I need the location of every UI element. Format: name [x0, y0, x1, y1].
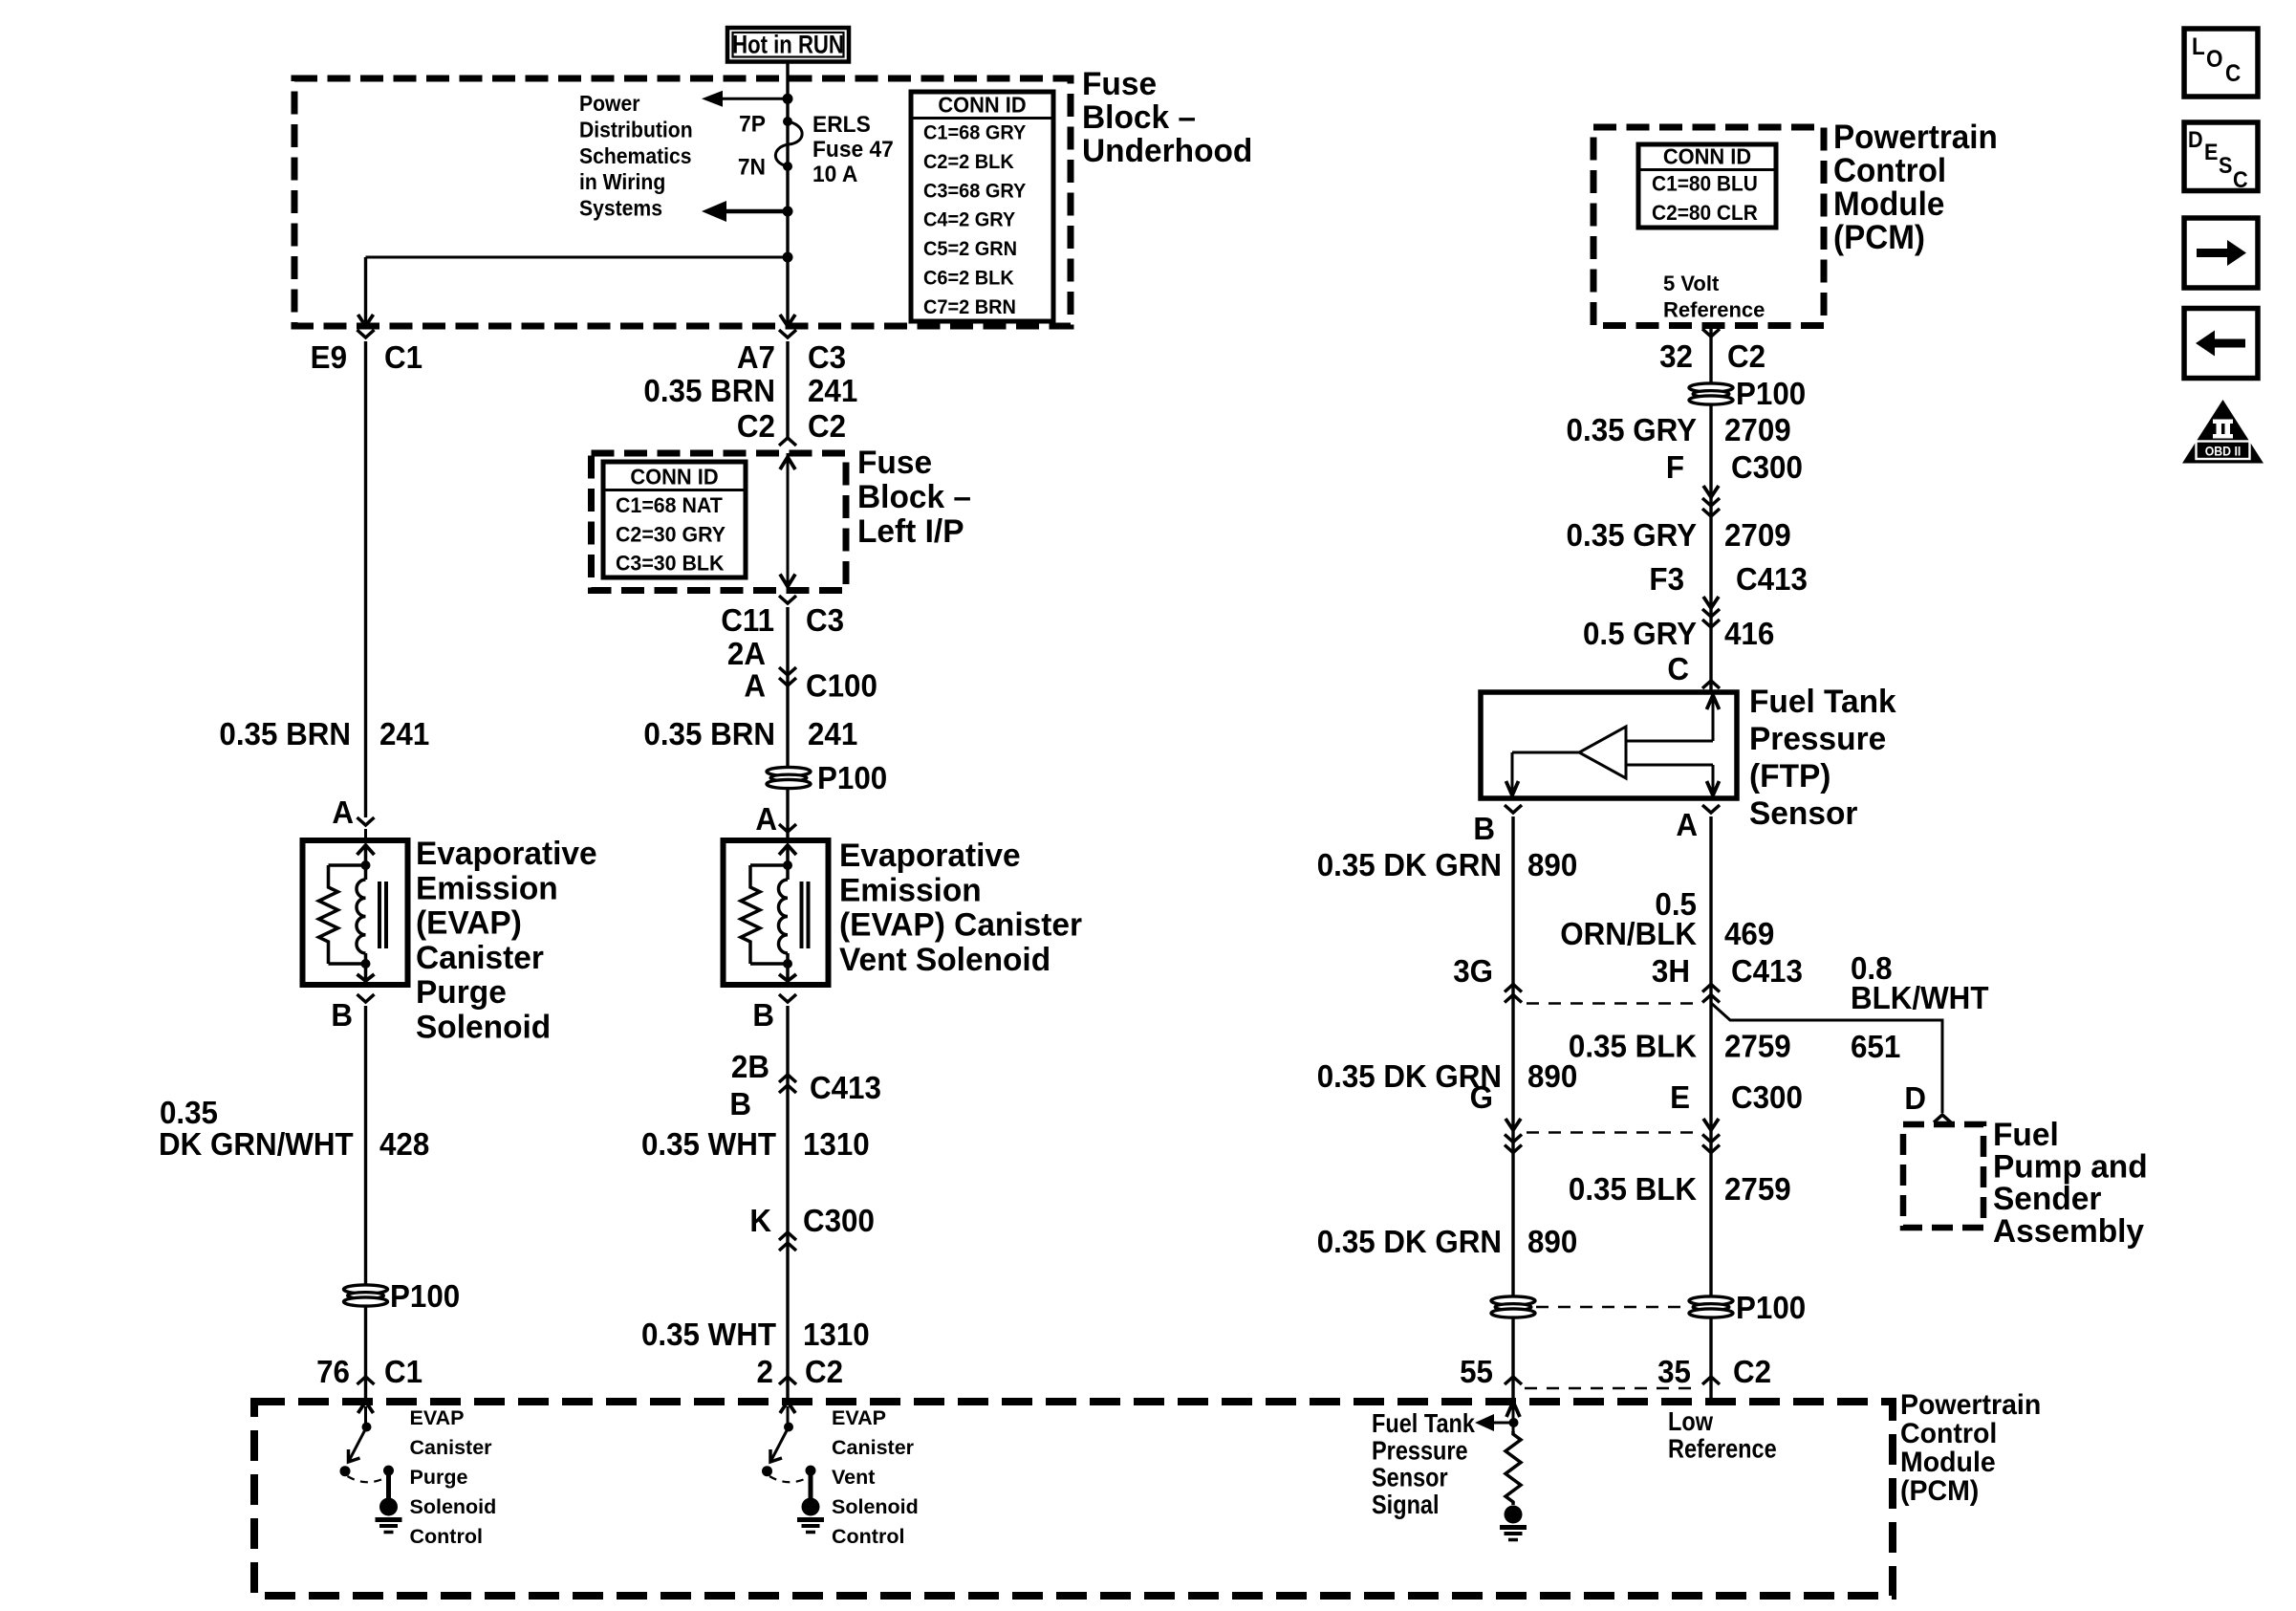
svg-text:Purge: Purge — [416, 974, 507, 1012]
svg-text:241: 241 — [808, 373, 857, 408]
svg-text:A7: A7 — [737, 339, 775, 375]
svg-text:E9: E9 — [311, 339, 347, 375]
svg-text:G: G — [1470, 1079, 1493, 1115]
svg-text:2B: 2B — [731, 1049, 769, 1084]
svg-text:(FTP): (FTP) — [1749, 758, 1830, 795]
svg-text:A: A — [744, 668, 766, 704]
svg-text:Solenoid: Solenoid — [410, 1495, 497, 1518]
svg-text:P100: P100 — [817, 760, 887, 795]
svg-text:Power: Power — [579, 91, 640, 116]
svg-text:CONN ID: CONN ID — [1663, 144, 1751, 169]
svg-text:Canister: Canister — [410, 1436, 493, 1459]
svg-text:0.35 GRY: 0.35 GRY — [1567, 412, 1697, 447]
svg-text:A: A — [332, 795, 354, 830]
svg-text:D: D — [1904, 1080, 1926, 1116]
svg-text:2A: 2A — [727, 636, 766, 671]
svg-text:428: 428 — [379, 1126, 429, 1162]
svg-text:2709: 2709 — [1724, 412, 1791, 447]
svg-text:C6=2 BLK: C6=2 BLK — [923, 267, 1014, 290]
svg-text:1310: 1310 — [803, 1317, 870, 1352]
svg-text:Solenoid: Solenoid — [832, 1495, 919, 1518]
svg-text:C3=68 GRY: C3=68 GRY — [923, 180, 1027, 203]
svg-text:B: B — [331, 997, 353, 1033]
svg-text:Evaporative: Evaporative — [416, 836, 597, 873]
svg-text:Control: Control — [832, 1525, 904, 1548]
svg-text:0.35 BRN: 0.35 BRN — [643, 716, 775, 751]
svg-text:469: 469 — [1724, 916, 1774, 951]
svg-text:Control: Control — [1833, 152, 1946, 189]
svg-text:0.35 BRN: 0.35 BRN — [219, 716, 351, 751]
svg-text:E: E — [2204, 139, 2218, 164]
svg-text:2759: 2759 — [1724, 1171, 1791, 1207]
svg-text:BLK/WHT: BLK/WHT — [1851, 980, 1989, 1015]
svg-text:C2: C2 — [1733, 1354, 1771, 1389]
svg-text:C2=30 GRY: C2=30 GRY — [616, 522, 726, 547]
svg-text:Fuel Tank: Fuel Tank — [1749, 684, 1896, 721]
svg-text:S: S — [2219, 152, 2232, 178]
svg-text:C4=2 GRY: C4=2 GRY — [923, 208, 1016, 231]
svg-text:C413: C413 — [810, 1070, 881, 1105]
svg-text:C: C — [1667, 651, 1689, 686]
svg-text:Hot in RUN: Hot in RUN — [732, 32, 844, 60]
svg-text:P100: P100 — [1736, 376, 1806, 411]
svg-text:0.5 GRY: 0.5 GRY — [1583, 616, 1697, 651]
svg-text:Block –: Block – — [857, 479, 971, 516]
svg-text:Powertrain: Powertrain — [1833, 119, 1998, 156]
svg-text:0.35 GRY: 0.35 GRY — [1567, 517, 1697, 553]
svg-text:EVAP: EVAP — [832, 1406, 886, 1429]
svg-text:0.35 DK GRN: 0.35 DK GRN — [1317, 847, 1502, 882]
svg-text:0.35 BLK: 0.35 BLK — [1569, 1171, 1697, 1207]
svg-text:Assembly: Assembly — [1993, 1212, 2144, 1250]
svg-text:C300: C300 — [1731, 1079, 1803, 1115]
svg-text:241: 241 — [379, 716, 429, 751]
svg-text:3H: 3H — [1652, 953, 1690, 989]
svg-text:Fuel Tank: Fuel Tank — [1372, 1409, 1476, 1438]
svg-text:ERLS: ERLS — [812, 111, 871, 137]
svg-text:C2=80 CLR: C2=80 CLR — [1652, 202, 1758, 226]
svg-text:(EVAP) Canister: (EVAP) Canister — [839, 906, 1082, 944]
svg-text:C5=2 GRN: C5=2 GRN — [923, 238, 1017, 261]
svg-text:C1=80 BLU: C1=80 BLU — [1652, 172, 1758, 196]
svg-text:Control: Control — [410, 1525, 483, 1548]
svg-text:P100: P100 — [1736, 1290, 1806, 1325]
svg-text:0.35 WHT: 0.35 WHT — [641, 1317, 776, 1352]
svg-text:Reference: Reference — [1663, 298, 1765, 322]
svg-text:Control: Control — [1900, 1418, 1997, 1449]
svg-text:Vent Solenoid: Vent Solenoid — [839, 941, 1051, 978]
svg-text:55: 55 — [1460, 1354, 1493, 1389]
svg-text:0.35 BLK: 0.35 BLK — [1569, 1029, 1697, 1064]
svg-text:C1=68 GRY: C1=68 GRY — [923, 121, 1027, 144]
svg-text:Systems: Systems — [579, 196, 662, 221]
svg-text:L: L — [2192, 33, 2205, 60]
svg-text:Pressure: Pressure — [1749, 721, 1886, 758]
svg-text:Left I/P: Left I/P — [857, 513, 964, 551]
svg-text:2759: 2759 — [1724, 1029, 1791, 1064]
svg-text:A: A — [1676, 807, 1698, 842]
svg-text:(EVAP): (EVAP) — [416, 904, 522, 942]
svg-text:Canister: Canister — [832, 1436, 915, 1459]
svg-text:C3: C3 — [806, 602, 844, 638]
svg-text:C100: C100 — [806, 668, 877, 704]
svg-text:C1: C1 — [384, 1354, 422, 1389]
svg-text:Low: Low — [1668, 1407, 1714, 1436]
svg-text:35: 35 — [1657, 1354, 1691, 1389]
svg-text:Sensor: Sensor — [1749, 795, 1857, 833]
svg-text:C1: C1 — [384, 339, 422, 375]
svg-text:Sensor: Sensor — [1372, 1464, 1448, 1492]
svg-text:P100: P100 — [390, 1278, 460, 1314]
svg-text:in Wiring: in Wiring — [579, 169, 665, 194]
svg-text:C2: C2 — [808, 408, 846, 444]
svg-text:CONN ID: CONN ID — [630, 465, 718, 490]
svg-text:EVAP: EVAP — [410, 1406, 465, 1429]
svg-text:Emission: Emission — [839, 872, 982, 909]
svg-text:F3: F3 — [1649, 561, 1684, 597]
svg-text:Module: Module — [1900, 1447, 1996, 1478]
svg-text:10 A: 10 A — [812, 161, 857, 186]
svg-text:Canister: Canister — [416, 939, 544, 976]
svg-text:Distribution: Distribution — [579, 118, 693, 142]
svg-text:B: B — [1473, 811, 1495, 846]
svg-text:C2: C2 — [737, 408, 775, 444]
svg-text:C2: C2 — [1727, 338, 1765, 374]
svg-text:1310: 1310 — [803, 1126, 870, 1162]
svg-text:3G: 3G — [1453, 953, 1493, 989]
svg-text:890: 890 — [1527, 847, 1577, 882]
svg-text:Reference: Reference — [1668, 1434, 1777, 1463]
svg-text:CONN ID: CONN ID — [938, 93, 1026, 118]
svg-text:C2: C2 — [805, 1354, 843, 1389]
svg-text:890: 890 — [1527, 1224, 1577, 1259]
svg-text:O: O — [2206, 46, 2223, 73]
svg-text:ORN/BLK: ORN/BLK — [1560, 916, 1697, 951]
svg-text:C3: C3 — [808, 339, 846, 375]
svg-text:Vent: Vent — [832, 1466, 875, 1489]
svg-text:0.35 WHT: 0.35 WHT — [641, 1126, 776, 1162]
svg-text:D: D — [2188, 126, 2203, 152]
svg-text:Powertrain: Powertrain — [1900, 1389, 2041, 1421]
svg-text:Purge: Purge — [410, 1466, 468, 1489]
svg-text:Underhood: Underhood — [1082, 133, 1252, 170]
svg-text:Fuse: Fuse — [857, 445, 932, 482]
svg-text:C11: C11 — [721, 602, 774, 638]
svg-text:K: K — [749, 1203, 771, 1238]
svg-text:A: A — [755, 801, 777, 837]
svg-text:C3=30 BLK: C3=30 BLK — [616, 551, 725, 576]
svg-text:Pressure: Pressure — [1372, 1436, 1468, 1465]
svg-text:416: 416 — [1724, 616, 1774, 651]
svg-text:2: 2 — [757, 1354, 773, 1389]
svg-text:32: 32 — [1659, 338, 1693, 374]
svg-text:C413: C413 — [1736, 561, 1808, 597]
svg-text:C: C — [2225, 60, 2241, 87]
svg-text:C413: C413 — [1731, 953, 1803, 989]
svg-text:Fuse 47: Fuse 47 — [812, 136, 894, 162]
svg-text:Emission: Emission — [416, 870, 558, 907]
svg-text:B: B — [729, 1086, 751, 1121]
svg-text:(PCM): (PCM) — [1900, 1475, 1979, 1507]
svg-text:76: 76 — [316, 1354, 350, 1389]
svg-text:B: B — [752, 997, 774, 1033]
svg-text:C300: C300 — [1731, 449, 1803, 485]
svg-text:0.35 DK GRN: 0.35 DK GRN — [1317, 1224, 1502, 1259]
svg-text:Module: Module — [1833, 185, 1944, 223]
svg-text:DK GRN/WHT: DK GRN/WHT — [159, 1126, 354, 1162]
svg-text:5 Volt: 5 Volt — [1663, 272, 1720, 295]
svg-text:C1=68 NAT: C1=68 NAT — [616, 492, 723, 517]
svg-text:C: C — [2233, 166, 2248, 192]
svg-text:Fuse: Fuse — [1082, 66, 1157, 103]
svg-text:OBD II: OBD II — [2205, 444, 2242, 459]
svg-text:0.35: 0.35 — [160, 1095, 218, 1130]
svg-text:890: 890 — [1527, 1058, 1577, 1094]
svg-text:E: E — [1670, 1079, 1690, 1115]
svg-text:(PCM): (PCM) — [1833, 219, 1925, 256]
svg-text:C2=2 BLK: C2=2 BLK — [923, 150, 1014, 173]
svg-text:Block –: Block – — [1082, 99, 1196, 137]
svg-text:Schematics: Schematics — [579, 143, 692, 168]
svg-text:C300: C300 — [803, 1203, 875, 1238]
svg-text:651: 651 — [1851, 1029, 1900, 1064]
svg-text:Solenoid: Solenoid — [416, 1009, 551, 1046]
svg-text:Evaporative: Evaporative — [839, 838, 1021, 875]
svg-text:7N: 7N — [738, 154, 766, 180]
svg-text:Signal: Signal — [1372, 1491, 1440, 1519]
svg-text:0.35 BRN: 0.35 BRN — [643, 373, 775, 408]
svg-text:F: F — [1666, 449, 1684, 485]
svg-text:C7=2 BRN: C7=2 BRN — [923, 295, 1016, 318]
svg-text:7P: 7P — [739, 111, 766, 137]
svg-text:241: 241 — [808, 716, 857, 751]
svg-text:2709: 2709 — [1724, 517, 1791, 553]
